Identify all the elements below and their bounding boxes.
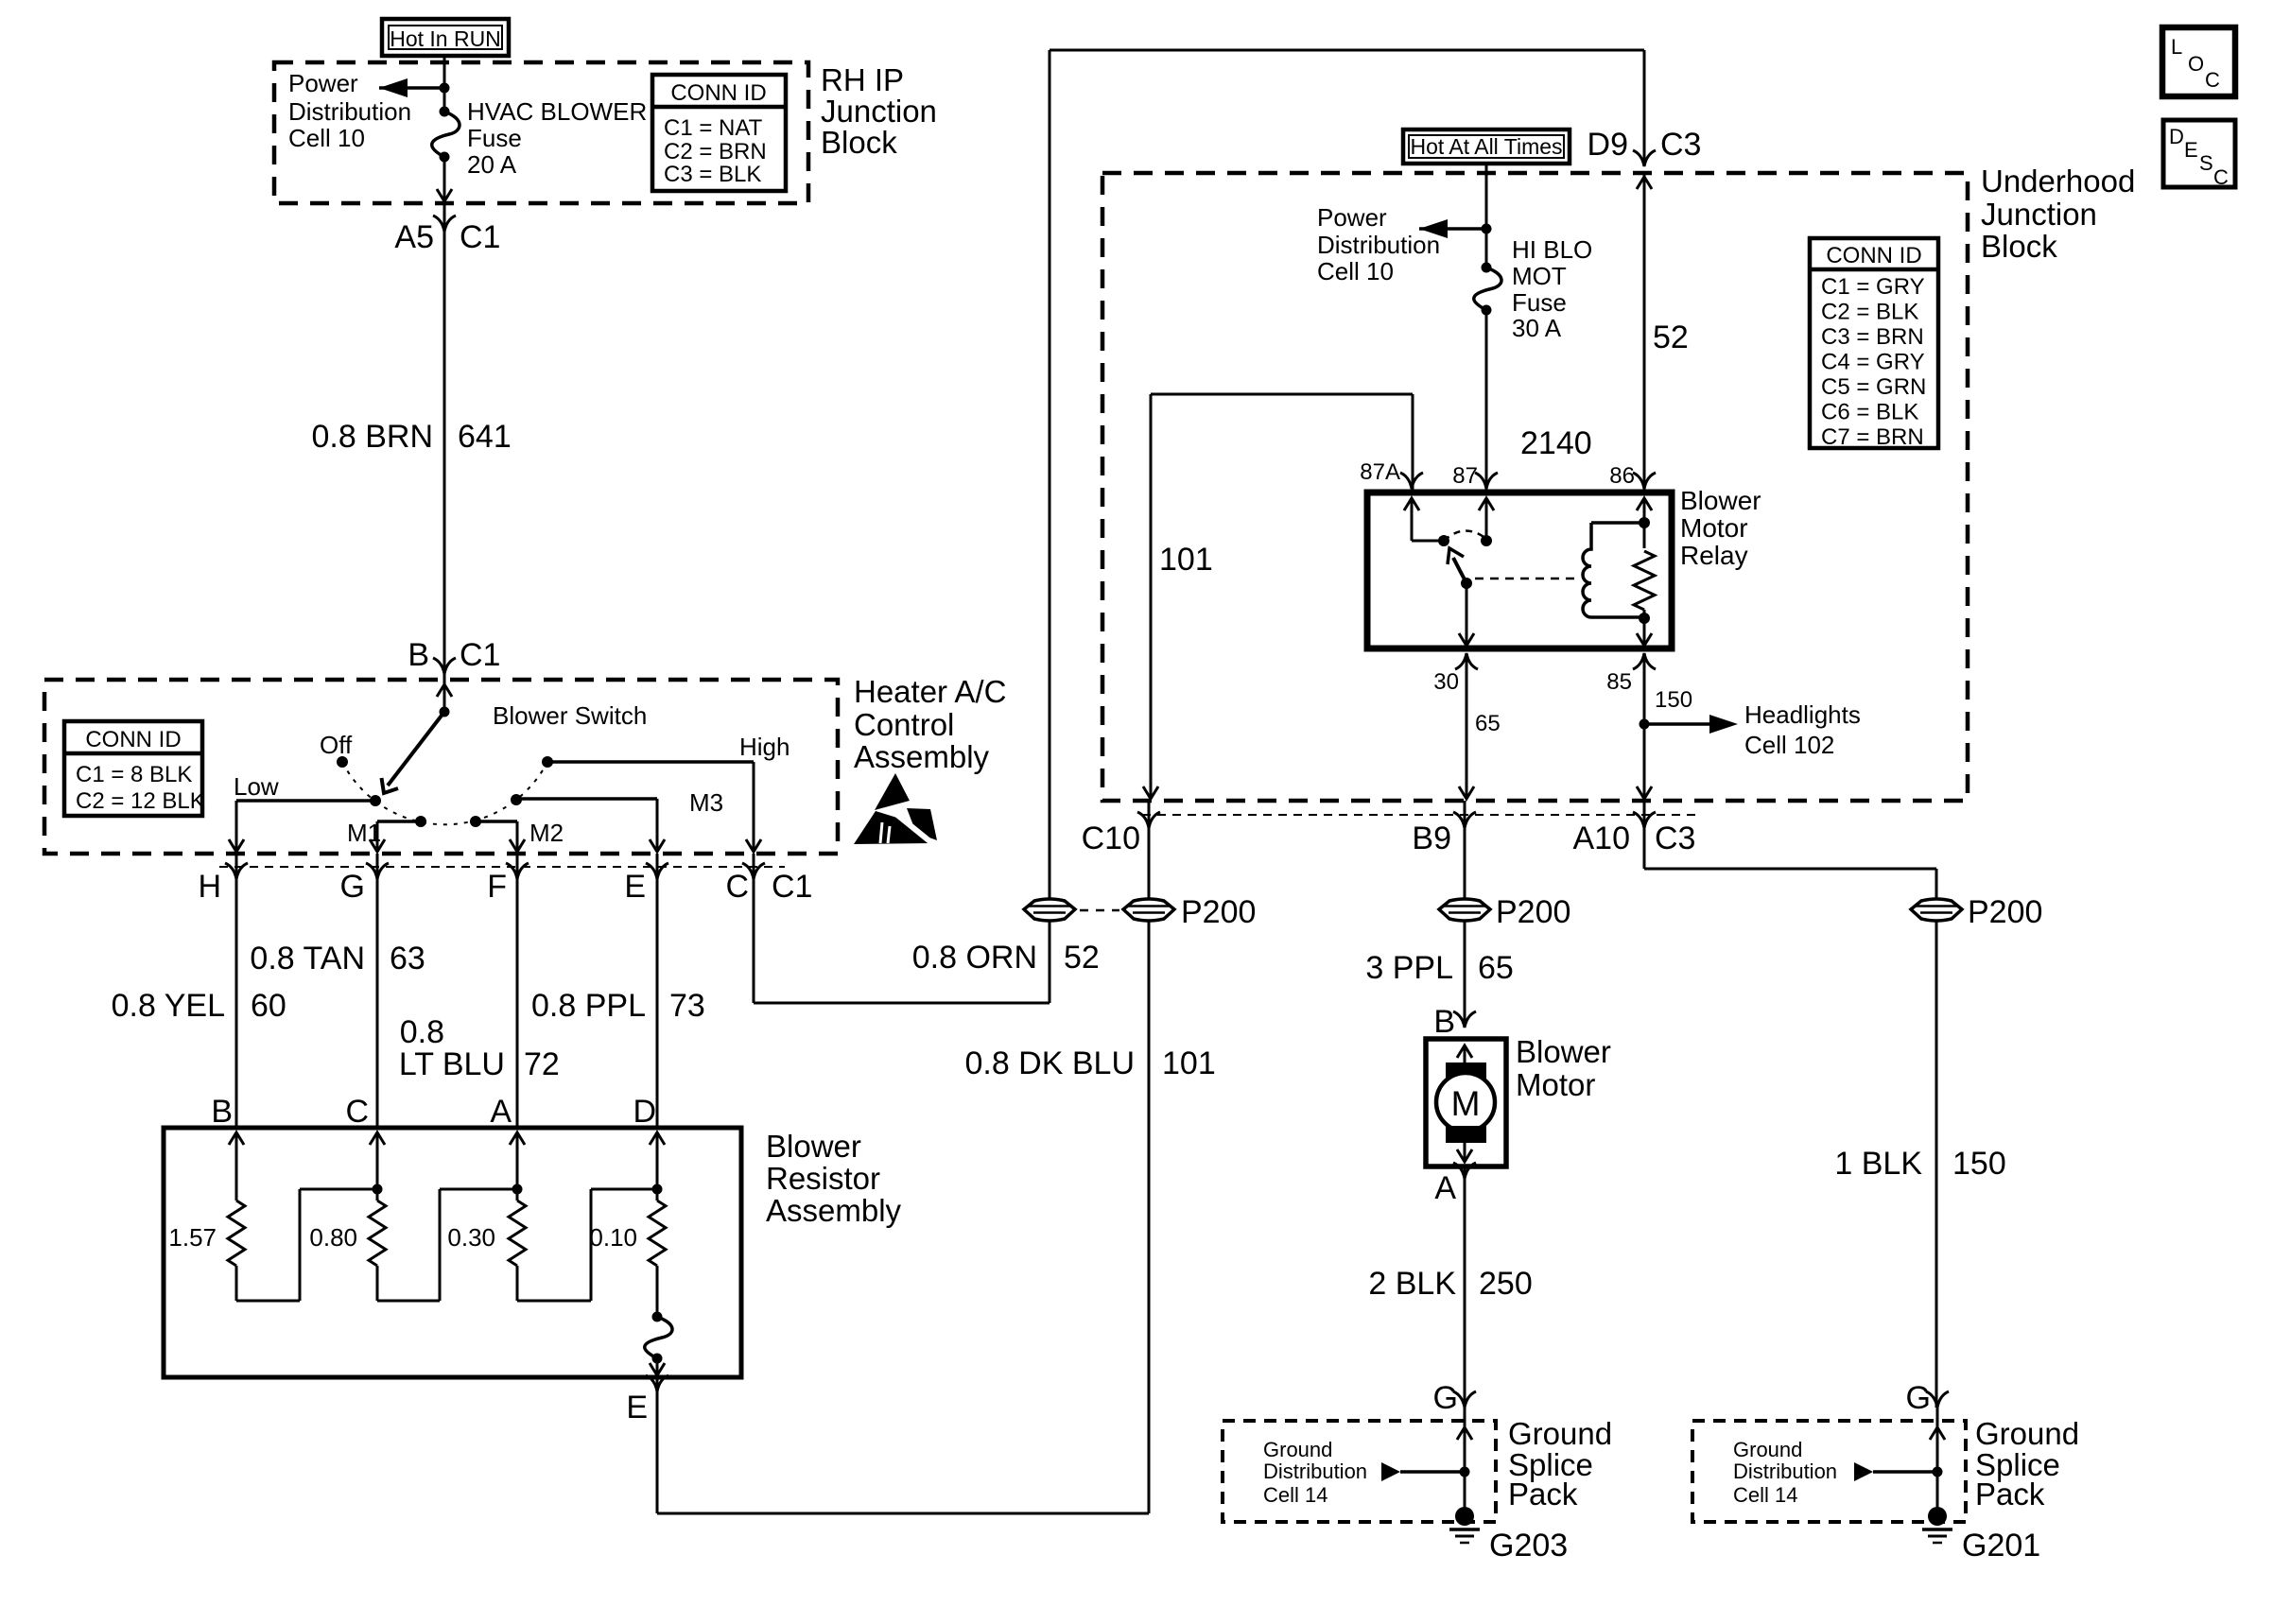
- svg-text:60: 60: [251, 988, 286, 1024]
- svg-text:M2: M2: [529, 819, 564, 847]
- svg-text:O: O: [2188, 52, 2204, 76]
- svg-text:30 A: 30 A: [1512, 314, 1562, 342]
- svg-text:52: 52: [1064, 940, 1100, 976]
- svg-text:C: C: [2213, 165, 2229, 189]
- svg-text:Cell 14: Cell 14: [1733, 1483, 1797, 1507]
- svg-text:M: M: [1451, 1084, 1481, 1123]
- svg-text:Junction: Junction: [821, 94, 937, 129]
- svg-text:0.8 BRN: 0.8 BRN: [312, 419, 434, 455]
- svg-text:1 BLK: 1 BLK: [1834, 1146, 1922, 1182]
- svg-text:85: 85: [1606, 669, 1632, 695]
- svg-text:Power: Power: [288, 69, 358, 97]
- svg-text:Cell 10: Cell 10: [1317, 257, 1394, 285]
- svg-text:0.8 ORN: 0.8 ORN: [912, 940, 1037, 976]
- svg-text:E: E: [626, 1390, 648, 1425]
- svg-text:D: D: [633, 1094, 656, 1130]
- svg-text:C2 = 12 BLK: C2 = 12 BLK: [76, 788, 205, 814]
- svg-text:C1: C1: [460, 219, 500, 255]
- svg-text:Ground: Ground: [1733, 1438, 1802, 1461]
- svg-text:High: High: [739, 733, 789, 761]
- svg-text:C4 = GRY: C4 = GRY: [1821, 350, 1925, 375]
- svg-text:H: H: [198, 869, 221, 905]
- svg-text:Power: Power: [1317, 203, 1387, 232]
- svg-text:Distribution: Distribution: [1263, 1460, 1367, 1483]
- svg-text:G: G: [1906, 1380, 1931, 1416]
- svg-text:86: 86: [1609, 463, 1635, 489]
- svg-text:65: 65: [1475, 711, 1501, 736]
- svg-text:G: G: [1433, 1380, 1458, 1416]
- svg-text:A: A: [1434, 1170, 1456, 1206]
- svg-text:0.8 PPL: 0.8 PPL: [531, 988, 646, 1024]
- svg-text:3 PPL: 3 PPL: [1365, 950, 1453, 986]
- svg-text:101: 101: [1159, 542, 1213, 578]
- svg-text:150: 150: [1952, 1146, 2006, 1182]
- svg-text:Assembly: Assembly: [854, 739, 990, 774]
- svg-text:F: F: [487, 869, 507, 905]
- svg-text:250: 250: [1479, 1266, 1533, 1302]
- svg-text:2 BLK: 2 BLK: [1368, 1266, 1456, 1302]
- svg-text:87: 87: [1452, 463, 1478, 489]
- svg-text:Underhood: Underhood: [1981, 164, 2135, 199]
- svg-text:B: B: [211, 1094, 233, 1130]
- svg-text:0.8: 0.8: [400, 1014, 444, 1050]
- svg-text:20 A: 20 A: [467, 150, 517, 179]
- svg-text:CONN ID: CONN ID: [670, 80, 766, 106]
- svg-text:1.57: 1.57: [168, 1223, 217, 1252]
- svg-text:M3: M3: [689, 788, 723, 817]
- svg-text:D9: D9: [1588, 127, 1628, 163]
- svg-text:Fuse: Fuse: [1512, 288, 1567, 317]
- svg-text:87A: 87A: [1360, 459, 1400, 485]
- svg-text:P200: P200: [1181, 894, 1256, 930]
- svg-text:Heater A/C: Heater A/C: [854, 674, 1006, 709]
- svg-text:S: S: [2199, 151, 2213, 175]
- svg-text:Junction: Junction: [1981, 197, 2097, 232]
- svg-text:72: 72: [524, 1046, 560, 1082]
- svg-text:Assembly: Assembly: [766, 1193, 902, 1228]
- svg-text:101: 101: [1162, 1045, 1216, 1081]
- svg-text:C1 = GRY: C1 = GRY: [1821, 274, 1925, 300]
- svg-text:63: 63: [390, 941, 425, 976]
- svg-text:Cell 14: Cell 14: [1263, 1483, 1327, 1507]
- svg-text:D: D: [2169, 125, 2184, 148]
- svg-text:LT BLU: LT BLU: [399, 1046, 505, 1082]
- svg-text:C2 = BRN: C2 = BRN: [664, 139, 767, 164]
- svg-text:Cell 10: Cell 10: [288, 124, 365, 152]
- svg-text:CONN ID: CONN ID: [1826, 243, 1921, 268]
- svg-text:150: 150: [1655, 687, 1692, 713]
- svg-text:A10: A10: [1573, 821, 1631, 856]
- svg-text:C3 = BRN: C3 = BRN: [1821, 324, 1924, 350]
- svg-text:Fuse: Fuse: [467, 124, 522, 152]
- svg-text:Ground: Ground: [1975, 1416, 2079, 1451]
- svg-text:Distribution: Distribution: [288, 97, 411, 126]
- svg-text:2140: 2140: [1520, 425, 1592, 461]
- svg-text:P200: P200: [1968, 894, 2042, 930]
- svg-text:B: B: [1433, 1004, 1455, 1040]
- svg-text:Hot In RUN: Hot In RUN: [390, 26, 501, 51]
- svg-text:Blower: Blower: [1680, 486, 1761, 515]
- svg-text:C6 = BLK: C6 = BLK: [1821, 400, 1918, 425]
- svg-text:G203: G203: [1489, 1528, 1568, 1564]
- svg-text:C2 = BLK: C2 = BLK: [1821, 300, 1918, 325]
- svg-text:C1: C1: [460, 637, 500, 673]
- svg-text:Motor: Motor: [1680, 513, 1748, 543]
- svg-text:0.30: 0.30: [447, 1223, 495, 1252]
- svg-text:Block: Block: [821, 125, 897, 160]
- svg-text:C1 = NAT: C1 = NAT: [664, 115, 763, 141]
- svg-text:Relay: Relay: [1680, 541, 1748, 570]
- svg-text:Resistor: Resistor: [766, 1161, 880, 1196]
- svg-text:0.8 YEL: 0.8 YEL: [112, 988, 225, 1024]
- svg-text:73: 73: [669, 988, 705, 1024]
- svg-text:0.80: 0.80: [309, 1223, 357, 1252]
- svg-text:Blower Switch: Blower Switch: [493, 701, 647, 730]
- svg-text:Block: Block: [1981, 229, 2057, 264]
- svg-text:MOT: MOT: [1512, 262, 1567, 290]
- svg-text:E: E: [624, 869, 646, 905]
- svg-text:Hot At All Times: Hot At All Times: [1410, 134, 1562, 159]
- svg-text:Distribution: Distribution: [1733, 1460, 1837, 1483]
- svg-text:Ground: Ground: [1263, 1438, 1332, 1461]
- svg-text:0.8 DK BLU: 0.8 DK BLU: [964, 1045, 1135, 1081]
- svg-text:Motor: Motor: [1516, 1067, 1595, 1102]
- svg-text:B: B: [408, 637, 429, 673]
- svg-text:L: L: [2171, 35, 2182, 59]
- svg-text:E: E: [2184, 138, 2198, 162]
- svg-text:Pack: Pack: [1975, 1477, 2045, 1512]
- svg-text:Off: Off: [320, 731, 353, 759]
- svg-text:65: 65: [1478, 950, 1514, 986]
- svg-text:C: C: [2205, 68, 2220, 92]
- svg-text:C7 = BRN: C7 = BRN: [1821, 424, 1924, 450]
- svg-text:A: A: [490, 1094, 512, 1130]
- svg-text:0.8 TAN: 0.8 TAN: [250, 941, 365, 976]
- svg-text:G201: G201: [1962, 1528, 2040, 1564]
- svg-text:C: C: [725, 869, 749, 905]
- svg-text:30: 30: [1433, 669, 1459, 695]
- svg-text:Ground: Ground: [1508, 1416, 1612, 1451]
- svg-text:Control: Control: [854, 707, 954, 742]
- svg-text:B9: B9: [1412, 821, 1451, 856]
- svg-text:CONN ID: CONN ID: [85, 727, 181, 752]
- svg-text:C1: C1: [772, 869, 812, 905]
- svg-text:52: 52: [1653, 320, 1689, 355]
- svg-text:Distribution: Distribution: [1317, 231, 1440, 259]
- svg-text:HI BLO: HI BLO: [1512, 235, 1592, 264]
- svg-text:C5 = GRN: C5 = GRN: [1821, 374, 1926, 400]
- svg-text:C10: C10: [1082, 821, 1140, 856]
- svg-text:C1 = 8 BLK: C1 = 8 BLK: [76, 762, 192, 787]
- svg-text:C3: C3: [1660, 127, 1701, 163]
- svg-text:Blower: Blower: [1516, 1034, 1611, 1069]
- svg-text:Pack: Pack: [1508, 1477, 1578, 1512]
- svg-text:G: G: [340, 869, 365, 905]
- svg-text:0.10: 0.10: [589, 1223, 637, 1252]
- svg-text:Blower: Blower: [766, 1129, 861, 1164]
- svg-text:Low: Low: [234, 772, 279, 801]
- svg-text:HVAC BLOWER: HVAC BLOWER: [467, 97, 647, 126]
- svg-text:641: 641: [458, 419, 512, 455]
- svg-text:M1: M1: [347, 819, 381, 847]
- svg-text:C3 = BLK: C3 = BLK: [664, 162, 761, 187]
- svg-text:P200: P200: [1496, 894, 1570, 930]
- svg-text:Cell 102: Cell 102: [1744, 731, 1834, 759]
- svg-text:Headlights: Headlights: [1744, 700, 1861, 729]
- svg-text:C: C: [345, 1094, 369, 1130]
- svg-text:C3: C3: [1655, 821, 1695, 856]
- svg-text:A5: A5: [394, 219, 434, 255]
- svg-text:RH IP: RH IP: [821, 62, 904, 97]
